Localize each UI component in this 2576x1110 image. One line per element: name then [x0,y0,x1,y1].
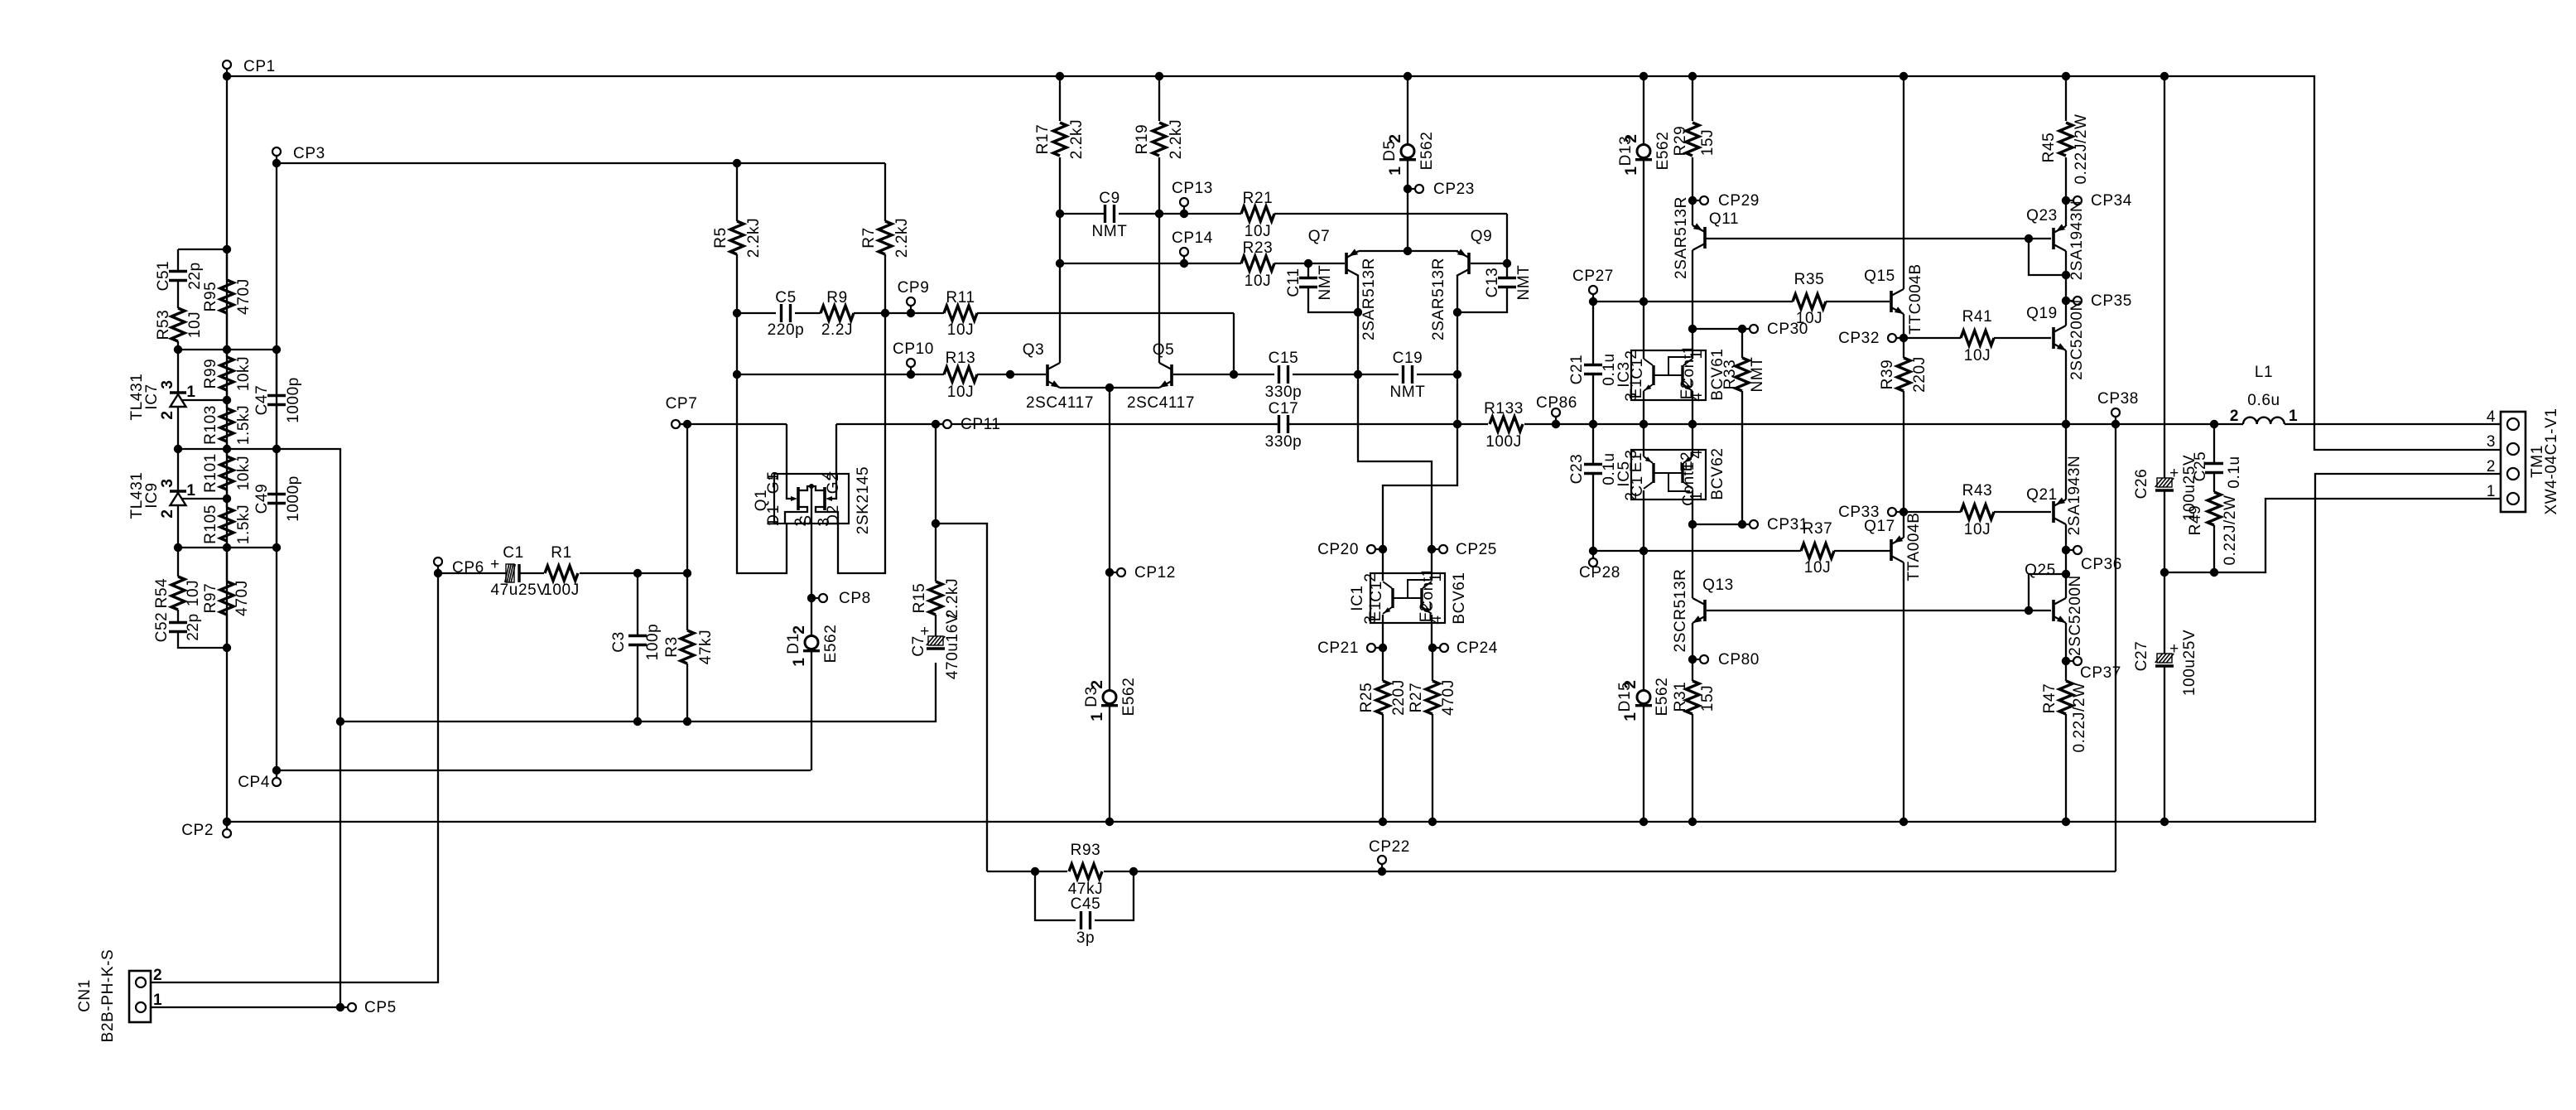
wire C26 to node [2164,491,2165,572]
svg-text:2: 2 [1362,572,1379,582]
node CP21 marker [1379,644,1387,652]
svg-text:15J: 15J [1699,129,1717,156]
wire C52 bottom link [178,631,227,648]
svg-text:Q9: Q9 [1471,228,1493,245]
node CP3 marker [272,159,281,167]
transistor Q13 2SCR513R [1703,600,1707,621]
svg-text:2: 2 [1089,679,1106,688]
junction 830,871 [683,717,691,726]
node CP12 marker [1105,568,1114,577]
svg-text:CP11: CP11 [961,416,1001,433]
junction 1340,992 [1105,818,1114,826]
wire C25 leads [2213,424,2215,464]
wire Q23 base-collector tie [2029,239,2066,275]
svg-text:2SCR513R: 2SCR513R [1672,569,1689,653]
resistor R21 [1241,206,1274,221]
junction 1820,318 [1503,259,1511,268]
shunt regulator IC9 TL431 [177,449,179,491]
wire C27 column [2164,572,2165,654]
diode D13 E562 [1637,145,1650,158]
svg-text:R101: R101 [202,453,219,493]
node CP3 wire to R5/R7 [277,162,885,164]
wire Q1 G2 lead [835,424,837,474]
junction 2450,288 [2025,234,2033,243]
wire CN1 pin2 riser to CP6 [151,573,438,982]
resistor R7 [879,221,892,254]
transistor Q3 2SC4117 [1046,364,1049,386]
junction 1280,318 [1056,259,1064,268]
svg-text:3: 3 [159,379,176,388]
junction 2495,512 [2062,420,2070,428]
wire Q15 emitter to CP32 [1903,314,1904,338]
node CP34 marker [2062,196,2070,205]
node CP25 marker [1428,545,1436,553]
svg-text:R29: R29 [1672,126,1689,157]
wire CP7 gate1 feed [675,423,787,425]
wire row C link and riser to CP5 [178,449,340,1007]
svg-text:R97: R97 [202,583,219,614]
node CP13 marker [1180,210,1188,218]
svg-text:C15: C15 [1269,350,1299,367]
svg-text:R37: R37 [1803,520,1833,538]
svg-text:100J: 100J [543,582,580,599]
transistor Q5 2SC4117 [1170,364,1173,386]
wire ground node to TM1 pin1 [2164,499,2508,572]
svg-text:CN1: CN1 [76,979,94,1012]
junction 2614,691 [2160,568,2169,577]
transistor Q9 2SAR513R [1467,253,1471,274]
wire row B link [178,349,277,350]
junction 1069,378 [881,309,889,317]
wire IC3 left pin leads [1643,302,1644,359]
svg-text:CP20: CP20 [1317,541,1359,558]
svg-text:220J: 220J [1390,679,1408,716]
svg-text:330p: 330p [1265,384,1302,401]
svg-text:R95: R95 [202,282,219,312]
svg-text:CP32: CP32 [1838,330,1880,347]
resistor R1 [545,566,578,581]
svg-text:C21: C21 [1568,355,1586,385]
svg-text:CP3: CP3 [293,145,325,162]
wire Q15 collector column [1903,76,1904,289]
svg-text:1: 1 [1387,166,1404,175]
svg-text:D1: D1 [785,633,802,654]
wire C11 column [1307,263,1309,278]
svg-text:2SC4117: 2SC4117 [1127,394,1195,412]
svg-text:G1: G1 [765,472,782,495]
svg-text:C19: C19 [1393,350,1423,367]
resistor R5 [730,221,744,254]
svg-text:CP6: CP6 [452,559,484,577]
wire Q7 collector column to CP25 [1358,276,1432,549]
svg-text:CP28: CP28 [1579,564,1620,582]
svg-text:CP24: CP24 [1457,639,1498,657]
dual transistor IC5 BCV62 [1631,450,1706,499]
wire R13 row y=452 to Q3 base [737,374,944,375]
junction 1670,992 [1379,818,1387,826]
node CP9 marker [907,309,915,317]
dual transistor IC1 BCV61 [1370,573,1445,623]
wire Q1 source to CP8 and D1 [811,486,812,636]
junction 2674,512 [2210,420,2218,428]
junction 2495,693 [2062,570,2070,578]
svg-text:2: 2 [2487,458,2496,475]
svg-text:NMT: NMT [1515,265,1533,301]
junction 334,422 [272,345,281,354]
junction 1984,992 [1639,818,1648,826]
resistor R101 [226,449,228,456]
svg-text:E1: E1 [1367,601,1384,621]
svg-text:C1: C1 [1368,581,1385,602]
svg-text:2SK2145: 2SK2145 [855,466,872,534]
wire riser R11 to Q5 base [1233,313,1235,374]
junction 830,692 [683,569,691,577]
capacitor C26 100u25V polarized [2157,478,2172,487]
svg-text:IC9: IC9 [143,482,161,508]
wire R7 leads [884,163,886,221]
node CP28 marker [1589,547,1597,555]
svg-text:CP25: CP25 [1456,541,1497,558]
svg-text:BCV62: BCV62 [1709,447,1726,499]
svg-text:E562: E562 [1120,678,1138,717]
junction 1490,452 [1230,370,1238,379]
wire R31 column [1692,659,1693,681]
wire R49 lead [2213,525,2215,572]
svg-text:R15: R15 [911,583,928,614]
svg-text:2.2kJ: 2.2kJ [944,578,961,618]
svg-text:CP36: CP36 [2081,556,2122,573]
svg-text:1000p: 1000p [285,475,302,522]
svg-text:10J: 10J [1804,559,1831,577]
junction 1985,364 [1639,297,1648,306]
wire CP11 column [935,424,937,582]
svg-text:2: 2 [791,625,808,634]
wire R45 column [2065,76,2067,121]
svg-text:10J: 10J [185,580,202,606]
svg-text:1: 1 [153,992,162,1009]
node CP36 marker [2062,546,2070,554]
capacitor C47 [276,350,277,396]
resistor R25 [1376,681,1389,714]
node CP33 marker [1899,508,1908,516]
capacitor C17 [1278,415,1280,433]
resistor R39 [1897,358,1910,391]
svg-text:E562: E562 [1654,132,1672,171]
wire CP4 to D1 bottom [277,770,811,771]
resistor R35 [1793,294,1826,309]
wire CP3 column down to CP4 [276,163,277,770]
wire Q21 emitter lead [2065,424,2067,499]
svg-text:Q17: Q17 [1864,518,1895,535]
capacitor C49 [276,449,277,495]
wire Q3 collector column with R17 [1059,76,1061,121]
junction 274,301 [223,245,231,253]
junction 770,692 [633,569,642,577]
diode D1 E562 [805,636,818,649]
junction 890,378 [733,309,741,317]
svg-text:NMT: NMT [1092,223,1128,240]
wire C23 column [1592,424,1594,465]
wire D5 column [1407,76,1408,145]
svg-text:CP13: CP13 [1172,180,1213,197]
wire main signal bus CP11 to TM1 pin4 [936,423,1279,425]
svg-text:220p: 220p [768,321,805,339]
svg-text:CP27: CP27 [1572,268,1614,285]
node CP30 marker [1688,325,1697,333]
svg-text:1000p: 1000p [285,377,302,423]
node CP38 marker [2111,420,2120,428]
wire R47 column [2065,661,2067,681]
svg-text:R3: R3 [663,636,681,658]
junction 411,871 [336,717,344,726]
svg-text:100J: 100J [1485,433,1522,451]
wire Q13 collector lead [1692,524,1693,598]
wire CN1 pin1 to CP5 [151,1006,340,1008]
svg-text:2: 2 [159,410,176,419]
junction 1250,1052 [1031,867,1039,876]
diode D3 E562 [1103,691,1116,704]
svg-text:D2: D2 [825,504,842,526]
junction 274,661 [223,543,231,552]
svg-text:R41: R41 [1962,308,1993,326]
svg-text:1: 1 [1623,166,1640,175]
connector CN1 B2B-PH-K-S [129,971,151,1022]
resistor R23 [1241,256,1274,271]
resistor R41 [1961,331,1994,345]
wire R5 leads [736,163,738,221]
junction 890,197 [733,159,741,167]
junction 274,483 [223,396,231,404]
junction 1340,467 [1105,384,1114,392]
node CP22 marker [1378,867,1386,876]
svg-text:2: 2 [2230,408,2239,425]
svg-text:R23: R23 [1243,239,1274,257]
svg-text:CP12: CP12 [1134,564,1176,582]
junction 2299,92 [1899,72,1908,80]
wire CP11 node to feedback riser [936,524,987,871]
junction 1400,92 [1155,72,1163,80]
svg-text:47u25V: 47u25V [490,582,547,599]
wire CP32 row R41 to Q19 base [1904,337,1961,339]
svg-text:2.2kJ: 2.2kJ [1068,119,1086,159]
node CP11 marker [932,420,940,428]
svg-text:C1: C1 [1629,475,1646,497]
junction 274,782 [223,644,231,652]
node CP5 marker [336,1003,344,1011]
capacitor C9 NMT [1104,205,1106,223]
svg-text:C23: C23 [1568,454,1586,485]
wire CP11 gate2 feed [836,423,936,425]
svg-text:E2: E2 [1678,379,1696,399]
svg-text:R7: R7 [860,227,878,249]
svg-text:L1: L1 [2255,364,2273,381]
svg-text:R47: R47 [2041,683,2058,714]
svg-text:CP29: CP29 [1718,192,1760,210]
capacitor C11 NMT [1299,277,1317,279]
capacitor C15 [1278,365,1280,384]
svg-text:+: + [2169,465,2179,482]
junction 1760,512 [1453,420,1461,428]
svg-text:220J: 220J [1911,356,1928,393]
svg-text:15J: 15J [1699,685,1717,712]
svg-text:10J: 10J [186,311,204,338]
transistor Q25 2SC5200N [2052,600,2055,621]
svg-text:BCV61: BCV61 [1451,572,1468,624]
junction 274,422 [223,345,231,354]
junction 1760,452 [1453,370,1461,379]
wire feedback line y=1052 to CP38 [987,871,1067,872]
svg-text:CP34: CP34 [2091,192,2132,210]
wire Q1 D1 staple to R5 column [737,313,787,573]
svg-text:R1: R1 [551,544,572,562]
transistor Q17 TTA004B [1890,539,1893,561]
junction 2614,92 [2160,72,2169,80]
wire CP38 riser [2115,424,2116,871]
svg-text:0.6u: 0.6u [2247,392,2280,409]
junction 1369,1052 [1129,867,1138,876]
svg-text:NMT: NMT [1390,384,1426,401]
svg-text:E562: E562 [822,625,840,664]
svg-text:CP14: CP14 [1172,229,1213,247]
svg-text:R54: R54 [153,578,171,609]
svg-text:R93: R93 [1071,842,1101,859]
svg-text:C11: C11 [1285,268,1302,297]
svg-text:10kJ: 10kJ [235,456,253,491]
svg-text:R13: R13 [946,350,976,367]
svg-text:C1: C1 [1629,358,1646,379]
node CP32 marker [1899,334,1908,342]
wire Q17 collector column to CP2 bus [1903,562,1904,822]
svg-text:R39: R39 [1879,360,1896,390]
svg-text:G2: G2 [825,472,842,495]
svg-text:Q13: Q13 [1702,577,1734,594]
diode D5 E562 [1401,145,1414,158]
svg-text:2.2kJ: 2.2kJ [745,218,763,258]
svg-text:2.2kJ: 2.2kJ [1168,119,1185,159]
svg-text:CP38: CP38 [2097,390,2139,408]
node CP37 marker [2062,657,2070,665]
svg-text:10J: 10J [1796,310,1822,327]
wire Q17 emitter lead [1903,512,1904,538]
wire C9 row y=258 [1060,213,1105,215]
svg-text:470J: 470J [235,278,253,315]
junction 2614,992 [2160,818,2169,826]
wire IC1 pin leads [1382,549,1384,581]
node CP7 marker [683,420,691,428]
svg-text:10J: 10J [947,321,974,339]
svg-text:2: 2 [1623,350,1640,359]
resistor R95 [226,249,228,280]
wire Q23 collector to CP35 [2065,251,2067,326]
resistor R93 [1069,864,1102,879]
svg-text:10J: 10J [1245,273,1271,290]
resistor R49 [2208,492,2221,525]
svg-text:470J: 470J [1440,679,1457,716]
svg-text:R99: R99 [202,359,219,389]
wire CP7 riser x=830 [686,424,688,573]
svg-text:CP80: CP80 [1718,651,1760,668]
resistor R45 [2059,123,2073,156]
wire Q9 base link [1471,263,1507,264]
svg-text:CP37: CP37 [2080,664,2121,682]
inductor L1 0.6u [2243,417,2285,424]
svg-text:2SA1943N: 2SA1943N [2068,200,2086,281]
svg-text:3: 3 [159,478,176,487]
resistor R29 [1686,123,1699,156]
wire R29 column [1692,76,1693,121]
junction 274,542 [223,445,231,453]
svg-text:CP35: CP35 [2091,292,2132,310]
svg-text:22p: 22p [185,613,202,641]
svg-text:CP9: CP9 [898,279,930,297]
wire row A link [178,249,227,250]
node CP31 marker [1688,520,1697,528]
svg-text:C9: C9 [1099,190,1120,207]
node CP4 marker [272,766,281,775]
junction 2044,992 [1688,818,1697,826]
junction 890,452 [733,370,741,379]
resistor R3 [686,573,688,630]
wire Q19 emitter to bus [2065,350,2067,424]
svg-text:S: S [797,514,815,525]
wire Q5 base / C15 / C19 row [1173,374,1274,375]
resistor R17 [1053,123,1067,156]
junction 1640,377 [1354,308,1362,316]
resistor R105 [226,499,228,508]
wire Q9 collector column to CP20 [1383,276,1457,549]
junction 1924,512 [1589,420,1597,428]
svg-text:C47: C47 [253,385,271,416]
svg-text:1: 1 [2289,408,2298,425]
junction 2674,691 [2210,568,2218,577]
wire IC5 left pin leads [1643,424,1644,456]
wire tail current column CP12/D3 [1109,388,1110,691]
svg-text:NMT: NMT [1749,357,1766,393]
svg-text:10kJ: 10kJ [235,356,253,392]
node CP20 marker [1379,545,1387,553]
svg-text:Q11: Q11 [1709,210,1739,228]
svg-text:Q3: Q3 [1023,341,1045,359]
capacitor C1 47u25V polarized [506,564,514,582]
node CP29 marker [1688,196,1697,205]
junction 334,661 [272,543,281,552]
resistor R13 [944,367,977,382]
svg-text:E562: E562 [1418,132,1436,171]
transistor Q21 2SA1943N [2052,501,2055,523]
wire CP30 row [1692,328,1742,330]
svg-text:CP10: CP10 [893,340,934,358]
resistor R27 [1426,681,1439,714]
junction 2044,92 [1688,72,1697,80]
svg-text:1.5kJ: 1.5kJ [235,504,253,544]
wire R15/C7 link [935,615,937,636]
svg-text:2: 2 [1622,679,1639,688]
resistor R54 [177,548,179,577]
svg-text:CP1: CP1 [243,58,276,75]
node CP8 marker [807,594,816,602]
wire Q25 emitter to CP37 [2065,623,2067,661]
junction 1640,452 [1354,370,1362,379]
junction 2299,992 [1899,818,1908,826]
wire D1 bottom to CP4 wire [811,652,812,770]
svg-text:Q7: Q7 [1308,228,1331,245]
svg-text:R31: R31 [1672,682,1689,712]
node CP10 marker [907,370,915,379]
capacitor C19 NMT [1402,365,1404,384]
capacitor C5 [780,304,782,322]
capacitor C45 [1080,911,1082,929]
wire Q3/Q5 emitter join [1060,387,1159,388]
